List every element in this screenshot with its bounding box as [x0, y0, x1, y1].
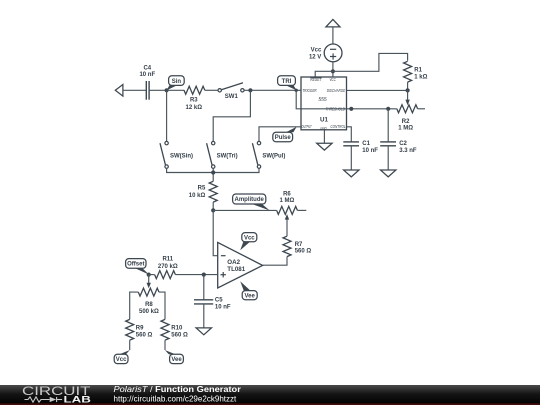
ground below C5	[196, 328, 211, 335]
svg-text:Amplitude: Amplitude	[235, 197, 265, 203]
flag Vcc op-amp supply	[240, 242, 250, 251]
R8 wiper arrow from offset node	[148, 275, 150, 284]
svg-text:R10: R10	[171, 326, 183, 332]
svg-text:U1: U1	[320, 117, 328, 124]
svg-text:OUTPUT: OUTPUT	[301, 124, 311, 129]
svg-text:Offset: Offset	[127, 262, 144, 268]
svg-text:DISCHARGE: DISCHARGE	[327, 88, 346, 93]
potentiometer R2 wiper arrow	[407, 90, 409, 100]
wire R8 left to R9	[130, 292, 139, 319]
wire SW1 to U1 TRIGGER	[244, 89, 301, 91]
flag Pulse	[286, 127, 297, 133]
svg-text:TRIGGER: TRIGGER	[302, 88, 316, 93]
svg-text:Vcc: Vcc	[116, 357, 127, 363]
svg-text:R2: R2	[402, 119, 410, 125]
flag Vee bottom	[165, 350, 176, 354]
wire noninverting junction to C5	[203, 275, 205, 300]
switch SW(Tri)	[212, 141, 215, 144]
svg-text:R7: R7	[295, 242, 303, 248]
svg-text:555: 555	[318, 97, 327, 103]
wire R5 to junction	[212, 202, 214, 210]
wire C1 to ground	[350, 146, 352, 170]
junction discharge	[406, 88, 410, 92]
svg-text:560 Ω: 560 Ω	[295, 249, 312, 255]
svg-text:3.3 nF: 3.3 nF	[399, 148, 417, 154]
wire CONTROL pin to C1	[347, 127, 352, 142]
svg-text:270 kΩ: 270 kΩ	[158, 264, 178, 270]
svg-text:R11: R11	[162, 257, 173, 263]
ground below C2	[381, 170, 396, 177]
wire DISCHARGE pin	[347, 89, 408, 91]
capacitor C4	[145, 81, 147, 100]
IC U1 555 body	[301, 77, 347, 130]
svg-text:Vcc: Vcc	[311, 47, 322, 53]
flag Sin	[167, 85, 178, 90]
svg-text:R1: R1	[414, 67, 422, 73]
switch SW(Sin)	[165, 141, 168, 144]
node Offset junction	[147, 273, 151, 277]
op-amp OA2 TL081	[218, 242, 263, 288]
potentiometer R2	[397, 105, 418, 113]
wire C2 top	[387, 109, 389, 142]
resistor R1	[404, 61, 412, 82]
switch SW1	[218, 89, 221, 92]
flag TRI	[286, 85, 297, 90]
R6 wiper arrow	[286, 219, 288, 236]
wire bus below switches	[167, 168, 259, 172]
resistor R11	[155, 271, 176, 279]
input port terminal	[115, 85, 123, 97]
svg-text:560 Ω: 560 Ω	[136, 333, 153, 339]
wire power flag to V1	[332, 27, 334, 44]
flag Offset	[135, 268, 150, 275]
junction bus R5	[211, 170, 215, 174]
node TRI junction	[295, 89, 298, 92]
wire R8 right to R10	[159, 292, 165, 319]
svg-text:C4: C4	[143, 65, 151, 71]
svg-text:R8: R8	[145, 302, 153, 308]
wire Sin node to SW(Sin)	[166, 90, 168, 141]
power flag Vcc arrow	[326, 19, 340, 27]
junction noninverting-C5	[202, 273, 206, 277]
svg-text:TRI: TRI	[282, 79, 292, 85]
wire R11 to op-amp non-inverting input	[175, 274, 217, 276]
wire Sin node to R3	[167, 89, 185, 91]
junction at SW1 output	[248, 88, 252, 92]
svg-text:C1: C1	[362, 141, 370, 147]
wire R6 right stub	[297, 209, 306, 211]
svg-text:SW(Tri): SW(Tri)	[217, 153, 238, 159]
svg-text:Vcc: Vcc	[244, 235, 255, 241]
svg-text:http://circuitlab.com/c29e2ck9: http://circuitlab.com/c29e2ck9htzzt	[114, 395, 238, 404]
svg-text:500 kΩ: 500 kΩ	[139, 309, 159, 315]
svg-text:12 V: 12 V	[309, 54, 321, 60]
wire C4 to node Sin	[149, 89, 167, 91]
svg-text:OA2: OA2	[227, 259, 240, 266]
svg-text:10 kΩ: 10 kΩ	[189, 193, 206, 199]
capacitor C2	[380, 141, 396, 143]
wire C2 to ground	[387, 146, 389, 170]
wire VCC junction to R1 top	[333, 53, 408, 71]
svg-text:GND: GND	[320, 126, 327, 130]
flag Amplitude	[252, 204, 270, 211]
capacitor C1	[343, 141, 359, 143]
wire junction to R6	[213, 209, 276, 211]
wire R9 to Vcc flag	[129, 340, 131, 350]
svg-text:THRESHOLD: THRESHOLD	[326, 107, 345, 112]
svg-text:1 kΩ: 1 kΩ	[414, 74, 427, 80]
wire R1 to DISCHARGE junction	[407, 82, 409, 90]
svg-text:10 nF: 10 nF	[139, 72, 155, 78]
ground below C1	[344, 170, 359, 177]
wire V1 to U1 VCC pin	[332, 62, 334, 77]
wire GND pin	[323, 130, 325, 143]
resistor R7	[283, 236, 291, 256]
svg-text:R6: R6	[283, 192, 291, 198]
wire trigger junction to SW(Tri)	[213, 90, 250, 141]
inverting input marker	[221, 255, 226, 257]
junction R5 bottom	[211, 208, 215, 212]
flag Vee op-amp supply	[240, 281, 250, 290]
junction threshold-C2	[386, 107, 390, 111]
wire junction to op-amp inverting input	[213, 210, 218, 255]
junction threshold-right of U1	[349, 107, 353, 111]
svg-text:LAB: LAB	[64, 395, 92, 405]
svg-text:12 kΩ: 12 kΩ	[186, 105, 203, 111]
svg-text:Vee: Vee	[245, 293, 256, 299]
resistor R5	[209, 181, 217, 202]
svg-text:Sin: Sin	[172, 79, 182, 85]
junction at VCC	[331, 69, 335, 73]
resistor R9	[126, 319, 134, 340]
svg-text:VCC: VCC	[329, 77, 336, 82]
svg-text:C5: C5	[215, 298, 223, 304]
resistor R10	[161, 319, 169, 340]
svg-text:R3: R3	[190, 98, 198, 104]
svg-text:SW1: SW1	[225, 94, 239, 100]
svg-text:R9: R9	[136, 326, 144, 332]
svg-text:Pulse: Pulse	[275, 135, 292, 141]
switch SW(Pul)	[257, 141, 260, 144]
wire OUTPUT pin to SW(Pul)	[259, 127, 301, 142]
wire junction to RESET pin	[315, 71, 333, 77]
svg-text:TL081: TL081	[227, 266, 245, 273]
svg-text:SW(Sin): SW(Sin)	[170, 153, 193, 159]
svg-text:1 MΩ: 1 MΩ	[279, 198, 294, 204]
svg-text:R5: R5	[198, 186, 206, 192]
wire R3 to SW1	[205, 89, 218, 91]
potentiometer R8	[138, 288, 159, 296]
wire offset node to R11	[149, 274, 155, 276]
svg-text:10 nF: 10 nF	[215, 305, 231, 311]
flag Vcc bottom	[119, 350, 130, 354]
svg-text:560 Ω: 560 Ω	[171, 333, 188, 339]
capacitor C5	[194, 299, 213, 301]
ground below U1	[317, 143, 332, 150]
wire R2 right stub	[418, 108, 425, 110]
svg-text:1 MΩ: 1 MΩ	[398, 126, 413, 132]
svg-text:10 nF: 10 nF	[362, 148, 378, 154]
svg-text:Vee: Vee	[171, 357, 182, 363]
node Sin junction	[165, 88, 169, 92]
svg-text:PolarisT / Function Generator: PolarisT / Function Generator	[114, 385, 241, 394]
svg-text:CONTROL: CONTROL	[330, 124, 346, 129]
wire C5 to ground	[203, 304, 205, 328]
non-inverting input marker	[221, 274, 226, 276]
svg-text:C2: C2	[399, 141, 407, 147]
wire port to C4	[123, 89, 146, 91]
wire R7 to op-amp output	[263, 257, 287, 266]
voltage source Vcc 12V	[324, 44, 342, 62]
wire R10 to Vee flag	[164, 340, 166, 350]
wire TRI node to THRESHOLD (jog)	[296, 90, 397, 109]
potentiometer R6	[277, 206, 298, 214]
svg-text:SW(Pul): SW(Pul)	[262, 153, 285, 159]
resistor R3	[184, 86, 205, 94]
